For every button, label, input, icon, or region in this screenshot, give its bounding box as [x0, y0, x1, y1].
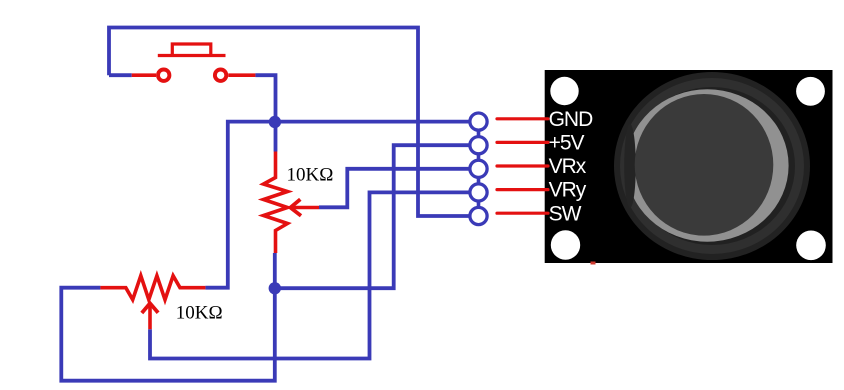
red pigtail SW [497, 212, 548, 215]
pin terminal +5V [470, 137, 487, 154]
wire SW net: top loop from button left to SW pin [109, 28, 470, 217]
wire +5V net: +5V pin left and down to node B [275, 145, 470, 288]
joystick base mid ring [620, 78, 804, 254]
pin terminal SW [470, 207, 487, 224]
joystick cap top [635, 94, 774, 236]
potentiometer R2 body (horizontal zigzag) [100, 276, 205, 300]
red speck artifact on module bottom edge [591, 262, 596, 265]
pin connector nubs between terminals [477, 129, 481, 209]
svg-text:GND: GND [549, 108, 594, 131]
pin terminal GND [470, 113, 487, 130]
pin terminal VRy [470, 184, 487, 201]
wire GND net: pot R2 right lead up and across to GND pin [205, 122, 469, 288]
node B junction dot [269, 282, 281, 294]
joystick gray collar ring [626, 89, 789, 241]
svg-text:VRy: VRy [549, 179, 587, 202]
joystick collar shadow left [624, 124, 636, 208]
pushbutton S1 left terminal [132, 70, 170, 81]
joystick base outer ring [614, 72, 810, 260]
svg-text:10KΩ: 10KΩ [176, 303, 223, 324]
mounting hole bottom-right [796, 231, 826, 261]
potentiometer R1 wiper arrow [290, 199, 319, 215]
wire VRx net: VRx pin left, down to R1 wiper [319, 169, 470, 208]
wire VRy net: VRy pin left, down, across to R2 wiper stem [150, 192, 470, 358]
potentiometer R2 wiper arrow [142, 303, 158, 329]
potentiometer R1 body (vertical zigzag) [264, 152, 288, 254]
svg-text:10KΩ: 10KΩ [287, 165, 334, 186]
pushbutton S1 cap [158, 44, 226, 56]
node A junction dot [269, 116, 281, 128]
svg-text:VRx: VRx [549, 155, 587, 178]
red pigtail GND [497, 117, 548, 120]
pushbutton S1 right terminal [215, 70, 255, 81]
red pigtail VRx [497, 164, 548, 167]
mounting hole bottom-left [551, 230, 580, 259]
mounting hole top-right [796, 77, 825, 106]
mounting hole top-left [550, 77, 578, 105]
svg-text:SW: SW [549, 202, 582, 225]
wire button left lead stub [109, 73, 132, 77]
joystick base inner dark ring [629, 87, 795, 245]
red pigtail +5V [497, 141, 548, 144]
wire button right lead down to node A [255, 75, 275, 151]
red pigtail VRy [497, 188, 548, 191]
joystick module U1 PCB [545, 70, 833, 263]
svg-text:+5V: +5V [549, 132, 585, 155]
wire node B down, bottom run, up to R2 left lead [61, 253, 274, 381]
pin terminal VRx [470, 160, 487, 177]
